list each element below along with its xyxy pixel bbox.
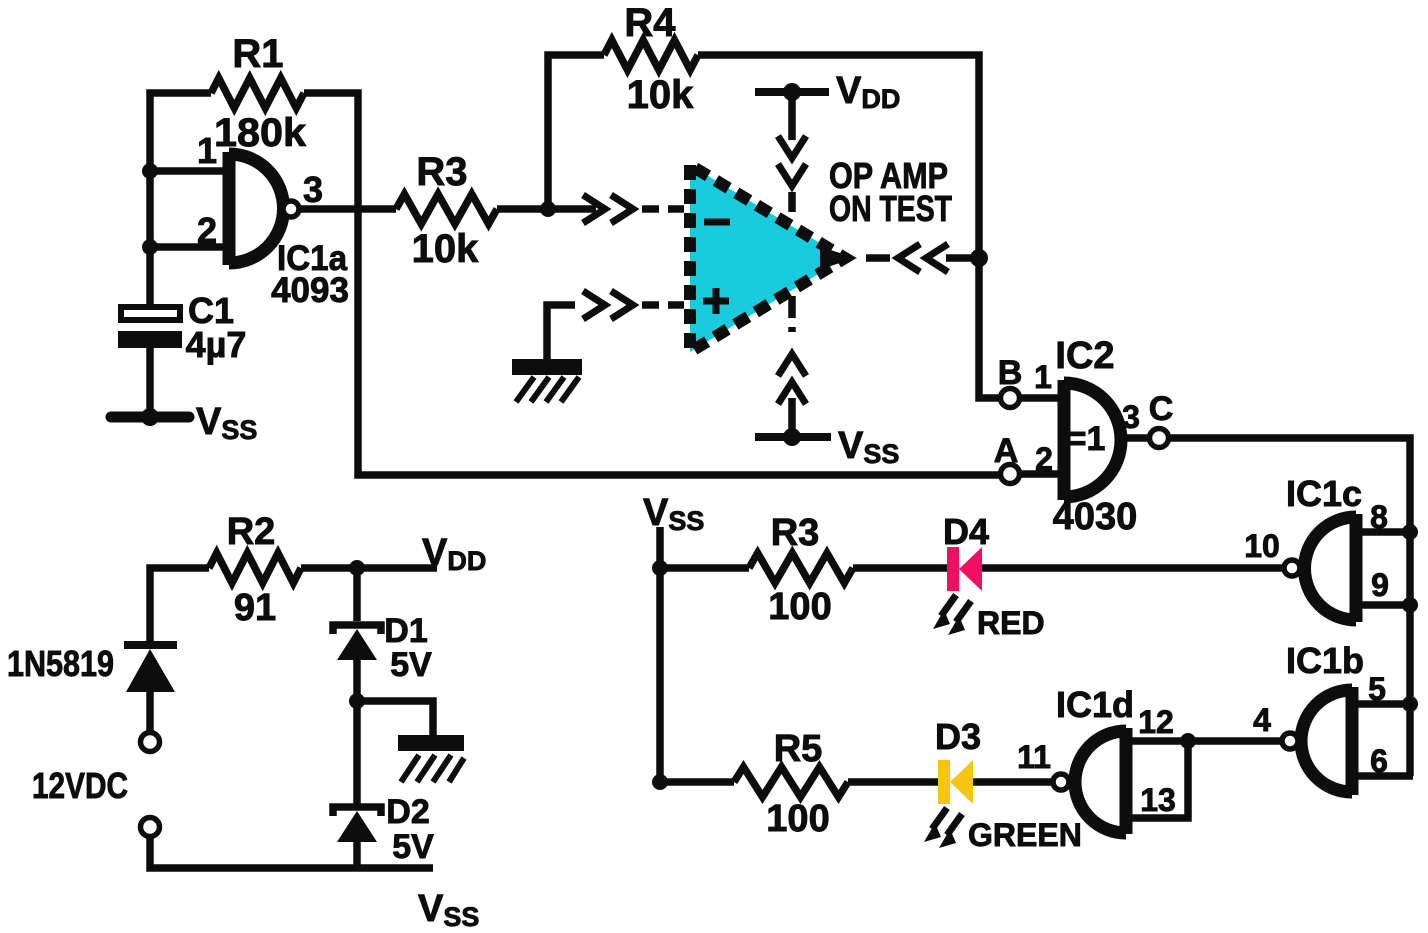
svg-text:4: 4 <box>1253 702 1271 738</box>
svg-text:ON TEST: ON TEST <box>829 188 952 229</box>
svg-text:D3: D3 <box>935 716 981 757</box>
arrow chevrons Vss up <box>778 354 806 404</box>
svg-text:10k: 10k <box>627 73 694 117</box>
wire IC1b pin6 stub <box>1352 772 1413 780</box>
node junction pin5 <box>1402 696 1418 712</box>
resistor R1 <box>211 32 307 155</box>
wire D3 to IC1d <box>973 739 1051 782</box>
label Vss (bottom-left of LED network) <box>643 492 704 536</box>
ground Vss (C1) <box>111 401 257 445</box>
wire pin12 to IC1b pin4 <box>1188 702 1280 741</box>
node junction R5 <box>652 774 668 790</box>
svg-text:=1: =1 <box>1067 420 1106 458</box>
nand gate IC1c <box>1284 473 1389 622</box>
wire D1 to D2 <box>353 660 361 806</box>
nand gate IC1b <box>1282 640 1388 795</box>
svg-text:180k: 180k <box>214 111 307 155</box>
svg-text:10k: 10k <box>412 227 479 271</box>
svg-text:9: 9 <box>1371 567 1389 603</box>
wire diode to terminal <box>146 692 154 733</box>
svg-text:IC1c: IC1c <box>1286 473 1362 514</box>
resistor R4 10k <box>604 1 698 117</box>
wire pin1 input branch <box>150 167 223 175</box>
svg-text:2: 2 <box>1035 441 1053 477</box>
op-amp U1 on test (cyan triangle) <box>690 155 952 352</box>
node terminal 12VDC + <box>141 733 160 752</box>
svg-text:3: 3 <box>1122 399 1140 435</box>
zener D1 <box>333 568 432 684</box>
label VDD <box>422 532 486 576</box>
node junction pin1 <box>142 163 158 179</box>
node junction R3b <box>652 560 668 576</box>
wire bottom rail <box>150 836 433 868</box>
resistor R5 100 <box>734 728 848 840</box>
wire R2 left leg <box>150 568 209 645</box>
svg-text:A: A <box>994 432 1019 470</box>
ground (zener midpoint) <box>398 735 464 782</box>
svg-text:R5: R5 <box>774 728 823 770</box>
node junction pin2 <box>142 239 158 255</box>
wire A to IC2 <box>1019 441 1058 477</box>
svg-text:1N5819: 1N5819 <box>7 643 114 684</box>
svg-text:100: 100 <box>768 586 831 628</box>
nand gate IC1a 4093 <box>197 130 349 310</box>
zener D2 <box>333 793 434 866</box>
node C terminal <box>1149 390 1174 448</box>
wire D4 to IC1c <box>982 528 1282 568</box>
wire R5 to D3 <box>848 778 938 786</box>
svg-text:R3: R3 <box>416 150 467 194</box>
diode 1N5819 <box>7 643 177 692</box>
svg-text:C: C <box>1149 390 1174 428</box>
wire IC1b pin5 stub <box>1352 700 1410 708</box>
svg-text:D2: D2 <box>386 793 429 831</box>
svg-text:11: 11 <box>1017 739 1051 775</box>
wire R4 drop leg <box>548 55 604 209</box>
wire to R3b <box>660 564 749 572</box>
wire IC1c pin9 stub <box>1356 601 1410 609</box>
svg-text:4µ7: 4µ7 <box>186 324 247 365</box>
LED D4 red <box>933 511 1045 641</box>
wire C to right rail down <box>1169 438 1410 776</box>
svg-text:12VDC: 12VDC <box>32 765 128 806</box>
resistor R3 100 (bottom) <box>749 512 853 628</box>
svg-text:R2: R2 <box>227 511 276 553</box>
svg-text:5V: 5V <box>392 828 434 866</box>
svg-text:3: 3 <box>303 169 323 210</box>
svg-text:4030: 4030 <box>1053 496 1138 538</box>
wire R3b to D4 <box>853 564 947 572</box>
capacitor C1 <box>118 290 246 365</box>
svg-text:R3: R3 <box>771 512 820 554</box>
svg-text:B: B <box>998 354 1023 392</box>
arrow chevrons output (pointing left) <box>898 244 948 272</box>
wire output dash of op-amp <box>866 254 890 262</box>
wire Vss rail vertical <box>656 527 664 782</box>
label Vss (bottom) <box>418 888 479 932</box>
svg-text:5V: 5V <box>390 646 432 684</box>
svg-text:IC1d: IC1d <box>1056 684 1134 725</box>
wire dash Vss below triangle <box>788 296 796 332</box>
svg-text:R4: R4 <box>624 1 676 45</box>
wire C1 to ground <box>146 348 154 414</box>
svg-text:4093: 4093 <box>271 271 349 310</box>
svg-text:D1: D1 <box>384 612 427 650</box>
node junction D1/VDD <box>349 560 365 576</box>
ground Vss rail (op-amp) <box>755 425 899 469</box>
wire dash VDD to triangle <box>788 192 796 212</box>
wire IC2 output <box>1121 399 1149 438</box>
wire R4 right lead down to B <box>698 55 1001 398</box>
svg-text:D4: D4 <box>943 511 989 552</box>
node junction output/B <box>970 249 988 267</box>
resistor R3 10k (top) <box>396 150 497 271</box>
wire to R5 <box>660 778 734 786</box>
wire R3 to arrow <box>497 205 596 213</box>
node junction gnd branch <box>349 693 365 709</box>
svg-text:12: 12 <box>1138 704 1174 740</box>
wire dash-dot to minus input <box>642 205 684 213</box>
wire dash-dot to plus input <box>642 301 684 309</box>
wire output to B rail <box>946 254 979 262</box>
node junction pin8 <box>1402 524 1418 540</box>
wire Vss leg <box>788 398 796 437</box>
svg-text:1: 1 <box>1034 359 1052 395</box>
node junction pin9 <box>1402 597 1418 613</box>
node terminal 12VDC - <box>141 818 160 837</box>
wire pin2 input branch <box>150 243 223 251</box>
wire to ground symbol <box>357 701 433 735</box>
label 12VDC <box>32 765 128 806</box>
xor gate IC2 4030 <box>1053 335 1138 538</box>
svg-text:1: 1 <box>197 130 217 171</box>
wire plus input from ground <box>547 305 575 360</box>
svg-text:2: 2 <box>197 210 217 251</box>
arrow chevrons minus input <box>583 195 633 223</box>
node junction pin12 <box>1180 733 1196 749</box>
nand gate IC1d <box>1053 684 1176 834</box>
wire R1 right lead + right feedback rail + A line <box>304 93 1001 475</box>
wire B to IC2 <box>1019 359 1058 398</box>
LED D3 green (yellow symbol) <box>924 716 1082 853</box>
svg-text:10: 10 <box>1244 528 1280 564</box>
wire IC1c pin8 stub <box>1356 528 1410 536</box>
wire IC1d pins 12-13 bracket <box>1126 741 1188 818</box>
svg-text:R1: R1 <box>232 32 283 76</box>
svg-text:GREEN: GREEN <box>968 817 1082 853</box>
VDD rail (op-amp) <box>755 70 900 140</box>
resistor R2 91 <box>209 511 301 629</box>
svg-text:IC1b: IC1b <box>1286 640 1364 681</box>
svg-text:IC2: IC2 <box>1055 335 1114 377</box>
arrow chevrons plus input <box>583 291 633 319</box>
svg-text:100: 100 <box>766 798 829 840</box>
wire top-left loop: R1 left lead and left rail upper part <box>150 93 211 306</box>
wire output pin3 to R3 <box>300 205 396 213</box>
node B terminal <box>998 354 1023 408</box>
node A terminal <box>994 432 1020 484</box>
wire R2 to VDD <box>301 564 437 572</box>
svg-text:13: 13 <box>1140 782 1176 818</box>
node junction R4/R3 <box>540 201 556 217</box>
ground (op-amp + input) <box>512 359 582 402</box>
arrow chevrons VDD down <box>778 136 806 186</box>
wire D2 to bottom rail <box>353 842 361 868</box>
svg-text:91: 91 <box>234 587 276 629</box>
svg-text:RED: RED <box>977 605 1045 641</box>
